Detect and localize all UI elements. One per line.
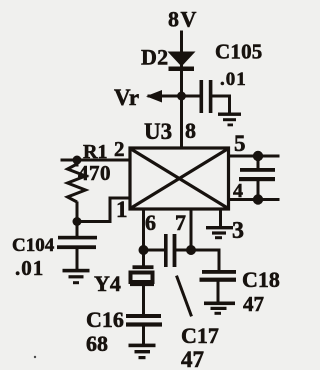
wire pin 7 down to node (190, 210, 193, 251)
wire pin 6 down to node (142, 210, 145, 251)
diode D2 (168, 52, 196, 72)
wire C104 bottom plate to ground (76, 249, 79, 269)
wire pin 4 to right edge (230, 198, 278, 201)
wire pin6 node to C17 left plate (144, 249, 164, 252)
svg-text:Vr: Vr (114, 85, 139, 110)
wire pin6 node down to Y4 (142, 250, 145, 266)
ground at C105 (218, 113, 241, 127)
svg-text:470: 470 (78, 161, 111, 185)
svg-text:4: 4 (233, 180, 243, 202)
svg-text:2: 2 (114, 137, 125, 161)
node junction dot at pin 5 net (253, 151, 263, 161)
svg-text:47: 47 (181, 347, 204, 370)
capacitor right-side plates (pins 5-4) (239, 168, 275, 181)
wire Vr arrow shaft (149, 95, 181, 98)
node junction dot at R1 top (73, 156, 82, 165)
svg-text:C18: C18 (242, 267, 280, 292)
wire C105 right plate to ground (L-shape) (212, 96, 230, 113)
wire junction to C105 left plate (182, 95, 201, 98)
wire right cap bottom lead (257, 180, 260, 200)
ground at pin 3 (206, 226, 233, 239)
wire C18 bottom plate to ground (217, 281, 220, 302)
svg-text:5: 5 (234, 131, 246, 156)
wire C17 label pointer line (177, 277, 191, 315)
wire R1 bottom lead to node (76, 203, 79, 222)
svg-text:8V: 8V (168, 7, 198, 32)
wire pin 5 to right edge (229, 155, 278, 158)
svg-text:47: 47 (243, 292, 264, 316)
svg-text:3: 3 (232, 218, 244, 244)
node junction dot at pin 6 (139, 245, 149, 255)
svg-text:C104: C104 (12, 235, 55, 256)
svg-text:.01: .01 (220, 69, 247, 90)
capacitor C104 plates (57, 236, 97, 249)
svg-text:D2: D2 (141, 45, 168, 70)
wire node down to C104 top plate (76, 222, 79, 237)
crystal Y4 (133, 265, 154, 269)
node junction dot at pin 7 (186, 245, 196, 255)
capacitor C16 plates (126, 314, 162, 327)
node speck artifact (34, 356, 36, 358)
svg-text:7: 7 (175, 210, 186, 235)
wire right cap top lead (257, 156, 260, 169)
wire pin7 node to C18 (L-shape) (191, 250, 219, 270)
wire C16 bottom plate to ground (142, 326, 145, 344)
svg-text:R1: R1 (83, 141, 107, 163)
svg-text:8: 8 (185, 118, 196, 143)
ground at C16 (129, 344, 156, 360)
svg-text:1: 1 (116, 197, 128, 222)
svg-text:C16: C16 (86, 307, 124, 332)
wire Y4 bottom to C16 top plate (142, 284, 145, 314)
svg-text:C17: C17 (181, 323, 219, 348)
svg-text:Y4: Y4 (94, 271, 121, 296)
node junction dot at R1 bottom (73, 217, 82, 226)
capacitor C17 plates (164, 234, 176, 267)
ground at C104 (63, 269, 90, 284)
capacitor C18 plates (200, 270, 237, 282)
svg-text:6: 6 (145, 210, 156, 235)
ground at C18 (204, 302, 235, 315)
wire C17 right plate to pin7 node (176, 249, 191, 252)
wire R1 top lead (76, 160, 79, 165)
resistor R1 zigzag (68, 164, 86, 202)
svg-text:.01: .01 (15, 256, 44, 280)
wire node to pin 1 (L-shape) (77, 198, 129, 222)
capacitor C105 plates (200, 80, 213, 113)
wire pin 3 to ground (219, 210, 222, 226)
svg-text:U3: U3 (144, 119, 172, 144)
node junction dot at diode/Vr (177, 92, 186, 101)
node junction dot at pin 4 net (253, 194, 263, 204)
svg-text:C105: C105 (215, 40, 262, 64)
svg-text:68: 68 (86, 331, 108, 356)
node Vr arrowhead (146, 90, 162, 103)
wire pin 2 to R1 node (62, 159, 129, 162)
wire 8V supply vertical to pin 8 (180, 32, 183, 147)
op-amp U3 crossed box (130, 148, 229, 209)
